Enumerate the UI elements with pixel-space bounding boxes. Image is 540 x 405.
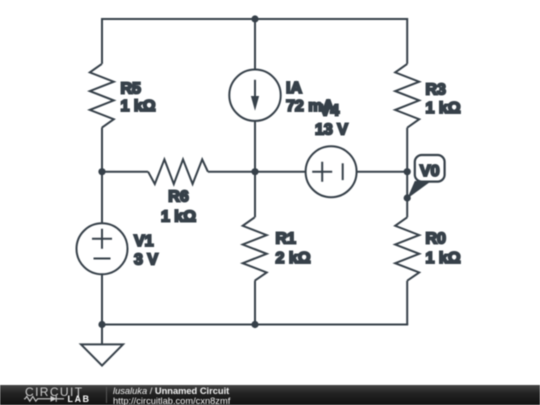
current source IA	[229, 70, 334, 121]
wire: center node to R1	[254, 172, 256, 218]
voltage source V1	[77, 223, 159, 274]
junction: top rail / IA branch	[251, 15, 258, 22]
wire: R0 bottom to bottom rail	[406, 281, 408, 325]
wire: R5 bottom to left-middle node	[101, 128, 103, 172]
wire: left vertical top (node top rail to R5)	[101, 20, 103, 64]
voltage source V4	[306, 103, 357, 198]
svg-text:R3: R3	[426, 82, 447, 99]
wire: left-middle node to R6	[102, 171, 148, 173]
resistor R0	[395, 217, 461, 280]
wire: R3 bottom to right-middle node	[406, 128, 408, 172]
svg-text:1 kΩ: 1 kΩ	[426, 100, 461, 117]
svg-text:3 V: 3 V	[134, 252, 158, 269]
junction: bottom rail / ground	[98, 321, 105, 328]
svg-text:IA: IA	[286, 80, 302, 97]
wire: top rail left segment	[101, 18, 255, 20]
junction: V0 tap on right branch	[404, 194, 411, 201]
svg-text:R0: R0	[426, 231, 447, 248]
svg-text:V1: V1	[134, 233, 154, 250]
junction: left-middle node	[98, 168, 105, 175]
wire: right-middle node through V0 tap to R0	[406, 172, 408, 218]
wire: right vertical top (top rail to R3)	[406, 18, 408, 64]
wire: center node to V4	[255, 171, 306, 173]
wire: IA bottom to center node	[254, 121, 256, 172]
node flag V0	[407, 155, 444, 199]
svg-text:V0: V0	[420, 163, 440, 180]
svg-text:R5: R5	[121, 81, 142, 98]
wire: top rail right segment	[255, 18, 408, 20]
wire: bottom rail right segment	[255, 324, 408, 326]
junction: bottom rail / R1 branch	[251, 321, 258, 328]
wire: middle vertical top (top rail to IA)	[254, 19, 256, 70]
wire: R6 to center node	[208, 171, 255, 173]
resistor R1	[243, 217, 311, 280]
resistor R6	[148, 159, 208, 225]
wire: V4 to right-middle node	[357, 171, 408, 173]
ground	[81, 325, 123, 366]
footer bar	[0, 385, 540, 405]
junction: center node	[251, 168, 258, 175]
wire: V1 bottom to ground node	[101, 274, 103, 324]
wire: R1 bottom to bottom rail	[254, 281, 256, 325]
svg-text:LAB: LAB	[68, 394, 91, 404]
wire: left-middle node to V1	[101, 172, 103, 224]
resistor R5	[90, 64, 156, 128]
svg-text:2 kΩ: 2 kΩ	[276, 250, 311, 267]
junction: right-middle node	[404, 168, 411, 175]
svg-text:R6: R6	[168, 189, 189, 206]
resistor R3	[395, 64, 461, 128]
svg-text:1 kΩ: 1 kΩ	[426, 250, 461, 267]
wire: bottom rail left segment	[102, 324, 255, 326]
svg-text:R1: R1	[276, 231, 297, 248]
svg-text:13 V: 13 V	[315, 122, 348, 139]
svg-text:1 kΩ: 1 kΩ	[161, 209, 196, 226]
CircuitLab logo	[24, 385, 104, 405]
svg-text:1 kΩ: 1 kΩ	[121, 98, 156, 115]
svg-text:V4: V4	[320, 103, 340, 120]
